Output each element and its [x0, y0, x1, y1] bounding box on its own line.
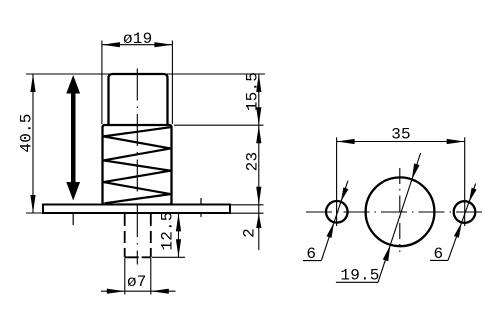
svg-text:6: 6: [306, 245, 316, 263]
hole centerline tick left: [72, 204, 74, 225]
dimension 40.5: [17, 74, 35, 213]
leader 19.5: [336, 153, 421, 285]
extension line bottom-left y213: [26, 212, 44, 214]
cap: [109, 74, 168, 125]
small circle right: [454, 201, 476, 223]
small circle left vertical line / 35 extension: [336, 137, 338, 226]
spring body outline: [103, 125, 172, 205]
top view horizontal centerline: [306, 211, 484, 213]
svg-text:12.5: 12.5: [158, 211, 176, 250]
small circle left: [326, 201, 348, 223]
dimension dia19: [102, 30, 172, 48]
svg-text:ø19: ø19: [123, 30, 152, 48]
hole centerline tick right: [200, 198, 202, 217]
svg-text:15.5: 15.5: [243, 72, 261, 111]
small circle right vertical line / 35 extension: [464, 137, 466, 226]
spring coils: [104, 127, 171, 203]
svg-text:35: 35: [391, 126, 411, 144]
extension line y125 right: [174, 124, 264, 126]
stud hidden line left: [124, 214, 126, 257]
centerline front view: [136, 69, 138, 265]
leader 6 right: [430, 183, 477, 263]
extension lines dia19: [101, 41, 103, 125]
svg-text:2: 2: [240, 228, 258, 238]
extension line flange bottom right: [231, 212, 264, 214]
big circle vertical centerline: [399, 168, 401, 252]
svg-text:6: 6: [433, 245, 443, 263]
extension line top y74: [26, 73, 265, 75]
big circle: [366, 177, 435, 246]
dimension dia7: [101, 258, 176, 295]
extension line flange top right: [231, 204, 264, 206]
flange: [43, 205, 230, 214]
leader 6 left: [303, 181, 348, 263]
dimension column 15.5 23 2: [240, 72, 261, 250]
stud hidden bottom: [125, 256, 151, 258]
stud hidden line right: [150, 214, 152, 257]
motion double arrow: [66, 75, 80, 201]
svg-text:19.5: 19.5: [340, 267, 379, 285]
dimension 35: [337, 126, 465, 145]
svg-text:40.5: 40.5: [17, 113, 35, 152]
svg-text:ø7: ø7: [127, 273, 147, 291]
dimension 12.5: [152, 211, 185, 257]
svg-text:23: 23: [243, 152, 261, 172]
